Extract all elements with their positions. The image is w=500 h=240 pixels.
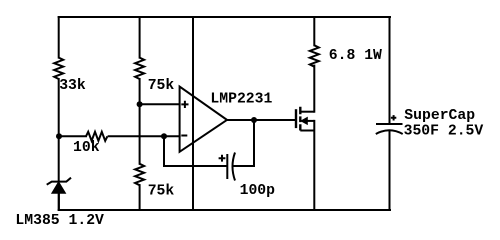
resistor 75k bottom	[135, 164, 144, 185]
wire right rail upper	[389, 17, 391, 124]
wire bottom rail	[59, 209, 390, 211]
node junction dot divider	[137, 101, 143, 107]
wire noninverting input	[140, 103, 180, 105]
wire source branch	[313, 121, 315, 210]
wire feedback right-up	[235, 120, 255, 166]
wire right rail lower	[389, 131, 391, 210]
svg-text:LMP2231: LMP2231	[210, 92, 272, 108]
wire top rail	[59, 16, 390, 18]
wire left rail upper	[58, 17, 60, 58]
svg-text:SuperCap: SuperCap	[404, 108, 475, 124]
node junction dot inverting	[161, 133, 167, 139]
node junction dot output	[251, 117, 257, 123]
resistor 75k top	[135, 58, 144, 79]
wire divider branch middle	[139, 79, 141, 164]
wire op-amp output to gate	[227, 119, 296, 121]
wire zener anode stub	[58, 193, 60, 210]
svg-text:33k: 33k	[59, 78, 86, 94]
resistor 6.8 1W	[310, 45, 319, 66]
wire left rail middle	[58, 79, 60, 181]
wire inverting input right	[109, 135, 180, 137]
resistor 33k	[54, 58, 63, 79]
wire left rail lower	[58, 193, 60, 210]
svg-text:75k: 75k	[148, 78, 175, 94]
capacitor 100p	[219, 153, 235, 181]
wire divider branch lower	[139, 185, 141, 210]
svg-text:100p: 100p	[240, 183, 276, 199]
svg-text:350F 2.5V: 350F 2.5V	[404, 124, 484, 140]
resistor 10k	[86, 132, 107, 141]
transistor Q1 MOSFET	[296, 107, 300, 131]
wire divider branch upper	[139, 17, 141, 58]
svg-text:10k: 10k	[73, 140, 100, 156]
wire drain branch upper	[313, 17, 315, 45]
wire supply rail vertical	[192, 17, 194, 210]
op-amp U1 LMP2231	[180, 87, 227, 152]
capacitor C1 SuperCap	[376, 115, 403, 134]
svg-text:6.8 1W: 6.8 1W	[329, 48, 382, 64]
zener diode D1 LM385	[47, 178, 71, 185]
svg-text:75k: 75k	[148, 184, 175, 200]
svg-text:LM385 1.2V: LM385 1.2V	[15, 213, 104, 229]
wire drain branch lower	[313, 66, 315, 112]
node junction dot left	[56, 133, 62, 139]
wire feedback down-left	[164, 136, 227, 166]
wire inverting input left	[59, 135, 86, 137]
